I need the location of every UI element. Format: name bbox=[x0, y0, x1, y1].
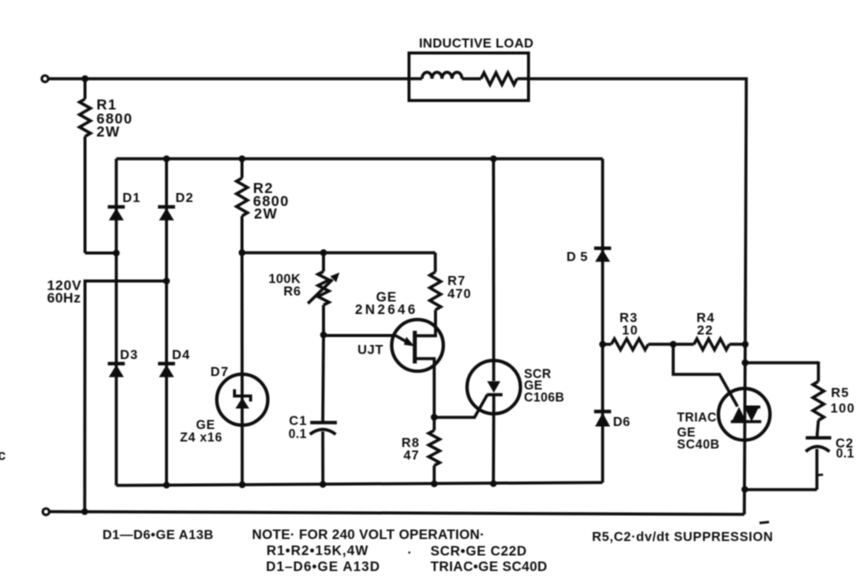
node: bridge AC node at D2/D4 bbox=[163, 278, 170, 285]
label NOTE: FOR 240 VOLT OPERATION: bbox=[252, 527, 485, 542]
label R1 6800 2W bbox=[97, 97, 133, 140]
svg-text:0.1: 0.1 bbox=[836, 447, 854, 461]
node: junction D5 / R3 / D6 bbox=[599, 341, 606, 348]
svg-text:60Hz: 60Hz bbox=[47, 290, 81, 306]
inductor: load inductance bbox=[409, 72, 462, 78]
svg-text:2N2646: 2N2646 bbox=[355, 302, 418, 317]
svg-text:UJT: UJT bbox=[358, 342, 384, 357]
capacitor C2 bbox=[806, 438, 832, 490]
node: junction D4 / control rail bbox=[163, 482, 170, 489]
wire: lower AC line from bottom rail up to bridge node D2/D4 bbox=[85, 281, 167, 512]
wire: R5 branch horizontal bbox=[745, 361, 818, 364]
terminal: AC line input (bottom) bbox=[43, 509, 49, 515]
svg-text:NOTE· FOR 240 VOLT OPERATION·: NOTE· FOR 240 VOLT OPERATION· bbox=[252, 527, 485, 542]
resistor R2 bbox=[237, 159, 248, 253]
svg-text:D1—D6•GE A13B: D1—D6•GE A13B bbox=[103, 527, 214, 542]
node: bridge AC node at D1/D3 bbox=[113, 250, 120, 257]
label D7 bbox=[211, 364, 230, 379]
svg-text:D 5: D 5 bbox=[567, 249, 588, 264]
diode D4 bbox=[158, 281, 175, 485]
diode D1 bbox=[108, 159, 125, 253]
svg-text:D2: D2 bbox=[176, 190, 194, 205]
svg-text:D7: D7 bbox=[211, 364, 230, 379]
svg-text:R1•R2•15K,4W: R1•R2•15K,4W bbox=[267, 543, 369, 558]
svg-text:TRIAC•GE SC40D: TRIAC•GE SC40D bbox=[431, 559, 548, 574]
diode D5 bbox=[594, 159, 611, 344]
wire: triac gate wire bbox=[673, 344, 737, 406]
label GE Z4x16 bbox=[180, 418, 223, 445]
svg-text:100: 100 bbox=[831, 401, 856, 416]
svg-text:R5: R5 bbox=[831, 385, 849, 400]
label 100K R6 bbox=[269, 271, 302, 299]
svg-text:D1–D6•GE A13D: D1–D6•GE A13D bbox=[266, 559, 380, 574]
label SCR=GE C22D bbox=[431, 544, 528, 559]
label GE 2N2646 bbox=[355, 290, 418, 318]
resistor R5 bbox=[813, 361, 824, 437]
terminal: AC line input (top) bbox=[42, 76, 48, 82]
capacitor C1 bbox=[310, 335, 337, 485]
svg-text:INDUCTIVE LOAD: INDUCTIVE LOAD bbox=[419, 36, 534, 51]
svg-text:C1: C1 bbox=[289, 413, 307, 428]
node: junction of top rail and R1 bbox=[82, 75, 89, 82]
resistor R7 bbox=[430, 253, 441, 311]
zener D7 (GE Z4x16) bbox=[217, 253, 268, 485]
wire: bridge positive rail bbox=[116, 157, 602, 160]
label 120V 60Hz bbox=[47, 277, 82, 306]
label R2 6800 2W bbox=[253, 181, 289, 223]
svg-text:R6: R6 bbox=[284, 284, 302, 299]
triac GE SC40B bbox=[718, 344, 770, 514]
diode D3 bbox=[108, 253, 125, 485]
node: junction R2 / bridge rail bbox=[239, 155, 246, 162]
resistor R4 bbox=[673, 339, 745, 350]
node: junction UJT B1 / R8 / SCR gate bbox=[431, 414, 438, 421]
artifact: small tick on C2 lead bbox=[817, 474, 823, 477]
svg-text:0.1: 0.1 bbox=[289, 427, 307, 441]
resistor R3 bbox=[603, 339, 674, 350]
SCR GE C106B bbox=[467, 159, 520, 484]
label R5 100 bbox=[831, 385, 856, 416]
node: junction C1 / control rail bbox=[320, 481, 327, 488]
artifact: stray dash above suppression note bbox=[760, 522, 770, 523]
svg-text:Z4 x16: Z4 x16 bbox=[180, 431, 223, 445]
label TRIAC GE SC40B bbox=[677, 411, 720, 452]
artifact: stray mark c at left margin bbox=[0, 447, 6, 464]
node: junction R3 / R4 / triac gate bbox=[670, 341, 677, 348]
node: junction SCR anode / bridge rail bbox=[490, 155, 497, 162]
node: junction R4 / right vertical bbox=[742, 341, 749, 348]
node: junction snubber return / triac column bbox=[741, 486, 748, 493]
label C1 0.1 bbox=[289, 413, 308, 441]
node: junction R6 top / supply rail bbox=[320, 249, 327, 256]
wire: main bottom rail bbox=[49, 512, 744, 515]
resistor R8 bbox=[429, 417, 440, 484]
wire: snubber return to triac column bbox=[745, 488, 817, 491]
svg-text:SC40B: SC40B bbox=[677, 438, 720, 452]
artifact: stray period between note columns bbox=[408, 542, 412, 557]
label R1=R2=15K,4W bbox=[267, 543, 369, 558]
label R4 22 bbox=[697, 310, 716, 337]
label R8 47 bbox=[402, 435, 420, 463]
node: junction SCR cathode / control rail bbox=[490, 480, 497, 487]
label R3 10 bbox=[620, 310, 639, 337]
label INDUCTIVE LOAD bbox=[419, 36, 534, 51]
node: junction R5 branch / right vertical bbox=[742, 359, 749, 366]
node: junction D7 / control rail bbox=[239, 481, 246, 488]
label C2 0.1 bbox=[836, 435, 855, 460]
node: junction D2 cathode / bridge rail bbox=[163, 155, 170, 162]
wire: UJT emitter wire bbox=[324, 334, 396, 337]
label R5,C2 dv/dt SUPPRESSION bbox=[592, 529, 773, 544]
label SCR GE C106B bbox=[524, 367, 564, 404]
diode D6 bbox=[594, 344, 611, 482]
label R7 470 bbox=[448, 273, 472, 301]
svg-text:c: c bbox=[0, 447, 6, 464]
svg-text:470: 470 bbox=[448, 286, 472, 301]
svg-text:TRIAC: TRIAC bbox=[677, 411, 717, 425]
node: junction bottom rail / lower AC line bbox=[81, 508, 88, 515]
wire: R1 bottom to bridge node D1/D3 bbox=[85, 252, 116, 255]
svg-text:R5,C2·dv/dt SUPPRESSION: R5,C2·dv/dt SUPPRESSION bbox=[592, 529, 773, 544]
wire: control common rail bbox=[116, 483, 602, 486]
svg-text:2W: 2W bbox=[254, 206, 278, 222]
wire: SCR gate wire bbox=[434, 395, 487, 418]
wire: UJT supply rail bbox=[242, 251, 435, 254]
node: junction R6 / C1 / UJT emitter bbox=[320, 332, 327, 339]
svg-text:D1: D1 bbox=[123, 190, 141, 205]
svg-text:10: 10 bbox=[622, 323, 638, 338]
svg-text:D3: D3 bbox=[120, 347, 138, 362]
label D1 bbox=[123, 190, 141, 205]
label D6 bbox=[613, 414, 630, 429]
node: junction R8 / control rail bbox=[431, 480, 438, 487]
svg-text:C106B: C106B bbox=[524, 390, 564, 404]
svg-text:2W: 2W bbox=[97, 125, 121, 141]
label TRIAC=GE SC40D bbox=[431, 559, 548, 574]
svg-text:.: . bbox=[408, 542, 412, 557]
label D3 bbox=[120, 347, 138, 362]
label D2 bbox=[176, 190, 194, 205]
resistor R1 bbox=[80, 79, 91, 253]
resistor: load resistance bbox=[462, 73, 529, 85]
wire: top rail from load box to right corner and down to triac bbox=[529, 79, 747, 345]
svg-text:22: 22 bbox=[697, 323, 713, 338]
label D1-D6 = GE A13B bbox=[103, 527, 214, 542]
label UJT bbox=[358, 342, 384, 357]
label D1-D6=GE A13D bbox=[266, 559, 380, 574]
svg-text:SCR•GE C22D: SCR•GE C22D bbox=[431, 544, 528, 559]
potentiometer R6 bbox=[308, 253, 340, 335]
label D4 bbox=[172, 347, 190, 362]
wire: top rail, input terminal to load box bbox=[48, 77, 409, 80]
load box outline bbox=[409, 53, 529, 101]
diode D2 bbox=[158, 159, 175, 281]
label D5 bbox=[567, 249, 588, 264]
UJT GE 2N2646 bbox=[392, 311, 444, 418]
svg-text:D6: D6 bbox=[613, 414, 630, 429]
svg-text:D4: D4 bbox=[172, 347, 190, 362]
svg-text:47: 47 bbox=[404, 448, 420, 463]
node: junction R2 bottom / D7 / UJT supply rail bbox=[239, 249, 246, 256]
